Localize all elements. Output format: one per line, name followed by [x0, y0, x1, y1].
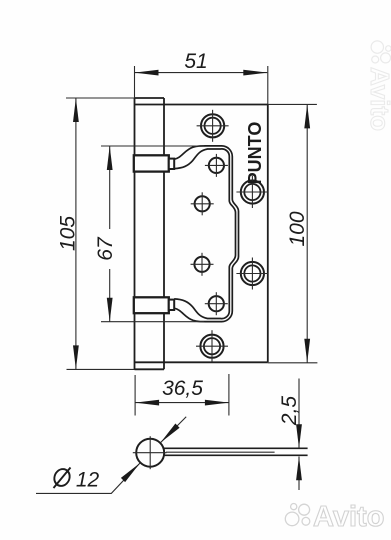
- svg-text:51: 51: [184, 50, 207, 73]
- svg-text:100: 100: [286, 211, 309, 246]
- svg-text:105: 105: [57, 216, 80, 251]
- svg-text:2,5: 2,5: [278, 396, 301, 427]
- svg-text:36,5: 36,5: [162, 377, 203, 400]
- svg-text:67: 67: [94, 236, 117, 261]
- svg-text:Avito: Avito: [313, 501, 384, 533]
- svg-text:Avito: Avito: [365, 67, 391, 131]
- svg-text:12: 12: [76, 469, 100, 492]
- svg-text:PUNTO: PUNTO: [245, 122, 265, 185]
